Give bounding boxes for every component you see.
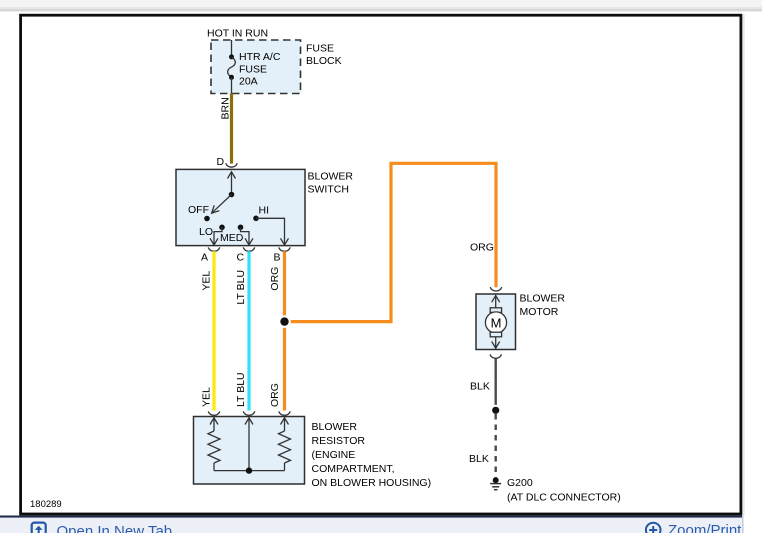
svg-text:LT BLU: LT BLU — [235, 270, 247, 305]
zoom/print icon — [646, 523, 661, 533]
svg-text:YEL: YEL — [200, 271, 212, 291]
svg-text:HI: HI — [259, 204, 270, 216]
svg-text:BLK: BLK — [469, 453, 489, 465]
svg-text:20A: 20A — [239, 76, 258, 88]
wire BLK dashed to ground — [495, 414, 497, 478]
blower switch box — [176, 169, 305, 245]
svg-text:M: M — [491, 315, 502, 330]
svg-text:MOTOR: MOTOR — [520, 306, 559, 318]
svg-text:BLOWER: BLOWER — [312, 421, 358, 433]
wire BLK motor to junction — [495, 358, 497, 410]
svg-text:LO: LO — [199, 226, 213, 238]
blower motor box — [476, 294, 516, 350]
connector at resistor ORG input — [279, 411, 291, 415]
junction on resistor bus — [246, 467, 252, 473]
svg-text:BLOCK: BLOCK — [306, 55, 342, 67]
svg-text:RESISTOR: RESISTOR — [312, 435, 366, 447]
blower resistor box — [194, 417, 305, 485]
wire ORG branch to blower motor — [285, 163, 497, 321]
connector at C — [243, 247, 255, 251]
svg-text:ON BLOWER HOUSING): ON BLOWER HOUSING) — [312, 477, 432, 489]
contact MED and wire to pin C — [238, 225, 253, 246]
open in new tab icon — [32, 523, 46, 533]
resistor element right — [279, 417, 291, 471]
svg-text:C: C — [237, 251, 245, 263]
contact HI and wire to pin B — [253, 216, 288, 246]
connector at blower motor bottom — [490, 354, 502, 358]
svg-text:MED: MED — [220, 232, 244, 244]
fuse HTR A/C FUSE 20A — [228, 40, 236, 94]
svg-text:B: B — [274, 251, 281, 263]
svg-text:OFF: OFF — [188, 204, 209, 216]
svg-text:(AT DLC CONNECTOR): (AT DLC CONNECTOR) — [507, 492, 621, 504]
connector at D — [226, 163, 238, 167]
wire LT BLU switch C to resistor — [247, 251, 250, 410]
switch common arrow to D — [228, 172, 236, 198]
bottom toolbar — [0, 516, 744, 533]
connector at resistor YEL input — [208, 411, 220, 415]
svg-text:A: A — [201, 251, 208, 263]
label BLOWER RESISTOR — [312, 421, 432, 489]
svg-text:BLOWER: BLOWER — [308, 171, 354, 183]
wire ORG switch B to resistor — [283, 251, 286, 410]
resistor element left — [208, 417, 220, 471]
svg-text:SWITCH: SWITCH — [308, 184, 349, 196]
svg-text:LT BLU: LT BLU — [235, 372, 247, 407]
wire YEL switch A to resistor — [212, 251, 215, 410]
svg-text:Open In New Tab: Open In New Tab — [57, 523, 173, 533]
svg-text:ORG: ORG — [269, 267, 281, 291]
connector at B — [279, 247, 291, 251]
svg-text:Zoom/Print: Zoom/Print — [668, 522, 742, 533]
top toolbar shadow strip — [0, 0, 762, 11]
fuse block box — [211, 40, 301, 94]
svg-text:COMPARTMENT,: COMPARTMENT, — [312, 463, 395, 475]
junction on ORG wire — [278, 315, 291, 328]
svg-text:ORG: ORG — [470, 241, 494, 253]
connector at A — [208, 247, 220, 251]
switch wiper arrow toward OFF — [212, 195, 232, 214]
motor M symbol — [485, 294, 506, 350]
svg-text:G200: G200 — [507, 477, 533, 489]
svg-text:BRN: BRN — [220, 97, 232, 119]
svg-text:BLOWER: BLOWER — [520, 293, 566, 305]
frame right shadow — [743, 14, 745, 516]
contact OFF — [204, 216, 210, 222]
svg-text:FUSE: FUSE — [239, 63, 267, 75]
svg-text:HOT IN RUN: HOT IN RUN — [207, 28, 268, 40]
svg-text:FUSE: FUSE — [306, 43, 334, 55]
contact LO and wire to pin A — [210, 225, 225, 246]
connector at resistor LT BLU input — [243, 411, 255, 415]
svg-text:(ENGINE: (ENGINE — [312, 449, 356, 461]
svg-text:D: D — [217, 156, 225, 168]
resistor middle branch — [245, 417, 253, 471]
wire BRN fuse to switch — [230, 94, 233, 164]
svg-text:BLK: BLK — [470, 381, 490, 393]
connector at blower motor top — [490, 287, 502, 291]
ground G200 — [490, 477, 501, 489]
svg-text:HTR A/C: HTR A/C — [239, 51, 281, 63]
resistor common bus — [214, 470, 285, 472]
junction on BLK wire — [490, 405, 501, 416]
label HTR A/C FUSE 20A — [239, 51, 281, 88]
svg-text:180289: 180289 — [30, 499, 62, 510]
svg-text:ORG: ORG — [269, 383, 281, 407]
svg-text:YEL: YEL — [200, 387, 212, 407]
